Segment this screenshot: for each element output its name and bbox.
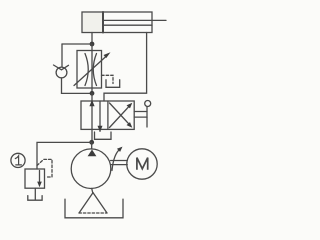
piston	[102, 12, 104, 33]
DV1 cell divider	[107, 101, 109, 129]
DV1 left cell down flow line	[99, 101, 101, 131]
flow control valve F1 body	[77, 51, 102, 89]
DV1 left cell down arrowhead	[98, 126, 103, 132]
directional valve DV1 outline	[81, 101, 134, 129]
wire: node C to relief valve supply	[37, 142, 92, 169]
wire: node B down to valve P port and through left cell	[91, 93, 93, 142]
label 1 circle	[11, 153, 25, 167]
wire: main line through F1	[91, 44, 93, 93]
check valve V1 (ball and seat)	[54, 65, 69, 78]
DV1 left cell up arrow	[89, 100, 94, 106]
motor label M	[137, 158, 148, 170]
tank T2 under DV1	[95, 132, 112, 139]
node B junction dot	[90, 91, 95, 96]
suction strainer	[79, 193, 107, 213]
F1 drain pilot line (dashed)	[102, 75, 114, 83]
RV1 pilot line (dashed)	[37, 159, 52, 177]
wire: check valve down to node B branch	[61, 78, 63, 94]
wire: pump suction down to strainer	[92, 188, 93, 193]
reservoir tank T3	[65, 199, 123, 218]
node C junction dot	[89, 140, 94, 145]
rotation arrow	[112, 147, 123, 171]
drain tank T1	[106, 80, 120, 88]
piston rod	[104, 20, 166, 25]
drain tank T4	[28, 196, 42, 201]
cylinder C1 body	[82, 12, 152, 33]
pump P1 circle	[71, 149, 111, 189]
wire: RV1 outlet down to drain tank	[34, 188, 36, 199]
DV1 right cell crossed path 1	[110, 103, 133, 128]
wire: node A left to check-valve branch	[62, 43, 92, 45]
DV1 right cell crossed path 2	[110, 103, 133, 128]
wire: node C down to pump	[91, 142, 93, 149]
wire: DV1 top right port up and over to cylinder rod end	[104, 33, 147, 102]
relief valve RV1 body	[25, 169, 45, 188]
DV1 lever knob	[145, 101, 151, 107]
label 1 text	[15, 156, 21, 165]
F1 throttle curves	[85, 54, 97, 86]
RV1 internal flow arrow	[37, 171, 42, 188]
DV1 lever actuator rods	[134, 107, 147, 127]
motor M1 circle	[127, 149, 157, 179]
wire: branch down to check valve	[61, 44, 63, 67]
node A junction dot	[90, 42, 95, 47]
drive shaft	[111, 161, 128, 165]
F1 adjustment arrow	[74, 52, 111, 85]
wire: cylinder cap-end port down to node A	[91, 33, 93, 45]
wire: branch bottom right to node B	[62, 92, 93, 94]
pump outflow triangle	[88, 150, 97, 157]
